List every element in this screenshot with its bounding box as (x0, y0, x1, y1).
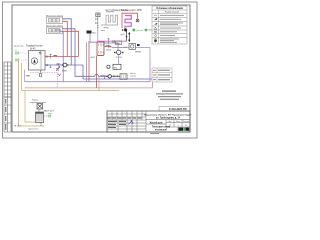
junction dots cluster (122, 29, 130, 42)
svg-text:Наименование: Наименование (165, 12, 180, 14)
hydraulic separator (97, 42, 104, 56)
gas valve green 1 (16, 51, 19, 55)
blue signature (129, 120, 134, 125)
title block outline (107, 111, 190, 132)
valve on red branch (108, 45, 110, 47)
inlet box mark (97, 13, 100, 16)
tan rail (22, 90, 120, 92)
valve on blue return (46, 64, 48, 66)
green check sensor (132, 29, 135, 32)
red loop around tank (122, 13, 138, 28)
filter box (37, 104, 43, 110)
gas pipe tan outer (19, 61, 45, 127)
valve on red header (46, 56, 48, 58)
purple drop mid (86, 42, 88, 81)
small label above valve (62, 70, 67, 71)
tee fitting on blue return (50, 65, 52, 68)
coil label line2 (106, 10, 114, 13)
recirc pump circle (117, 50, 121, 54)
red branch right (104, 46, 112, 48)
svg-text:БКН: БКН (116, 43, 121, 45)
green tap (49, 115, 52, 118)
magenta recirc horizontal (98, 40, 127, 42)
wire jump arc (95, 74, 99, 76)
red riser mid (88, 41, 90, 81)
purple rail (25, 61, 151, 82)
left registration table (4, 62, 11, 97)
tan dashed gas line to boiler (19, 59, 29, 61)
label on blue return (57, 63, 60, 64)
purple header right (104, 43, 118, 50)
bus dot left (106, 76, 107, 77)
title small texts (108, 118, 142, 128)
left stamp rotated text marks (5, 99, 6, 130)
inner drawing frame (12, 5, 190, 132)
green sensor 2 (145, 29, 148, 32)
red drop from separator (96, 56, 98, 88)
blue bus elbow (83, 65, 152, 79)
heating system label (55, 29, 62, 30)
pump dots (62, 64, 63, 65)
coil inlet green valve A (95, 18, 97, 20)
gas valve green 2 (16, 58, 19, 62)
svg-text:Дымоход: Дымоход (14, 45, 24, 47)
purple riser stub (60, 30, 63, 33)
tee fitting on red header (49, 54, 51, 59)
svg-text:Листов: Листов (183, 121, 190, 123)
floor heating coil (101, 15, 118, 25)
legend table (152, 6, 187, 44)
blue bus main (98, 75, 120, 77)
pump dots (114, 52, 116, 54)
pipe legend texts (158, 70, 170, 81)
bus end box (120, 74, 127, 80)
blue return line (45, 64, 83, 66)
svg-text:датчик: датчик (136, 30, 143, 32)
dashed line valve to boiler (19, 52, 29, 54)
wire blue from group1 (63, 19, 72, 65)
boiler top fitting (39, 52, 41, 55)
svg-text:ул. Грибоедова, д. 14: ул. Грибоедова, д. 14 (156, 116, 181, 119)
wire blue from group2 (63, 29, 95, 77)
title block left grid (107, 111, 146, 132)
pump group 2 box (47, 27, 63, 34)
stub to three-way valve (58, 65, 60, 68)
gas drop to softener (25, 91, 36, 122)
boiler flue pipe (40, 51, 42, 71)
boiler box (29, 51, 46, 71)
label on red header (54, 55, 57, 56)
drain mark under valve (58, 74, 61, 76)
red supply header (45, 56, 79, 58)
purple riser left (62, 32, 64, 82)
wire red from group1 (63, 21, 68, 56)
bus end box hatch (122, 74, 126, 80)
fitting dots (26, 75, 27, 76)
svg-text:Труба Твен: Труба Твен (28, 128, 39, 130)
purple link to right loop (136, 48, 151, 62)
bus valve 1 (113, 75, 115, 77)
BKN box (116, 41, 122, 45)
station bottom pipes (39, 109, 41, 127)
svg-text:Газовый котел: Газовый котел (26, 45, 43, 48)
softener stripes (36, 114, 43, 120)
bus valve 2 (117, 75, 119, 77)
left stamp (inv no / signature) table (4, 97, 11, 132)
svg-text:Тепловая схема: Тепловая схема (152, 127, 171, 129)
link to GVS box (112, 47, 130, 49)
filter cross (38, 104, 43, 109)
bus pump (108, 75, 111, 78)
separator hatch bottom (99, 51, 104, 54)
boiler bottom fitting flask (39, 70, 41, 77)
lit list grid (146, 120, 190, 133)
format note (150, 133, 159, 134)
svg-text:схемы: схемы (130, 75, 137, 77)
svg-text:25 ГВС: 25 ГВС (116, 57, 123, 59)
return pump circle (63, 63, 67, 67)
wire red from group2 (63, 31, 79, 56)
small pump left of box (107, 65, 110, 68)
legend symbols column (154, 15, 157, 42)
bus fitting stub (104, 76, 106, 79)
doc code cell (159, 107, 190, 111)
pipe legend samples (153, 69, 156, 71)
legend row texts (160, 15, 184, 43)
softener unit (36, 112, 44, 123)
bus size label (101, 75, 106, 76)
svg-text:Бак расширит. ОРБ: Бак расширит. ОРБ (121, 10, 142, 12)
svg-text:Р-3пб.2024-ТМ: Р-3пб.2024-ТМ (169, 108, 187, 111)
GVS box right (129, 43, 136, 49)
valve on magenta line (113, 40, 115, 42)
pump drop line (118, 50, 120, 64)
tiny center labels (106, 44, 110, 47)
logo (179, 128, 190, 131)
svg-text:Условные обозначения: Условные обозначения (156, 7, 183, 10)
svg-text:АСВ: АСВ (91, 56, 96, 59)
svg-text:газ: газ (15, 50, 18, 52)
tap connect line (44, 115, 49, 117)
three-way valve magenta (56, 68, 59, 71)
inlet ticks (97, 26, 99, 28)
VKS controller box (87, 31, 92, 34)
lower mixing box (113, 64, 121, 69)
coil inlet green valve B (95, 22, 97, 24)
marks below coil (104, 26, 109, 29)
boiler pump symbol (31, 58, 37, 64)
notes block (156, 91, 183, 100)
pump group 1 box (47, 17, 63, 24)
svg-text:Лист: Лист (176, 121, 180, 123)
svg-text:котельной: котельной (155, 128, 168, 131)
svg-text:ТВ 32-Л: ТВ 32-Л (14, 125, 22, 127)
coil inlet box (96, 13, 100, 17)
svg-text:ВКС: ВКС (92, 32, 97, 34)
outer page frame (3, 2, 198, 138)
magenta flexible hose zigzag (125, 16, 131, 31)
dark fitting right of GVS (137, 44, 140, 46)
lit labels (168, 121, 189, 127)
separator under address (146, 119, 190, 121)
purple drop from coil inlet (97, 17, 99, 41)
green sensor 2 label (148, 29, 151, 30)
gas pipe tan inner (21, 63, 23, 91)
safety valve on red loop (136, 19, 139, 22)
softener header (36, 112, 44, 114)
pipe legend table (152, 68, 172, 82)
pink-red rail (25, 82, 153, 88)
GVS box symbol (131, 45, 134, 48)
tan drop to rail (98, 76, 100, 90)
separator hatch top (99, 44, 104, 47)
small fitting on magenta (107, 38, 109, 44)
solo label (135, 51, 141, 52)
pink dashed recirculation (30, 72, 58, 88)
purple drop from VKS (90, 34, 105, 43)
black riser pair (127, 30, 130, 42)
purple left drop (24, 70, 26, 82)
svg-text:Лит: Лит (168, 121, 171, 123)
svg-text:Московская область, КП "Приокс: Московская область, КП "Приокские Сады" (144, 113, 191, 116)
